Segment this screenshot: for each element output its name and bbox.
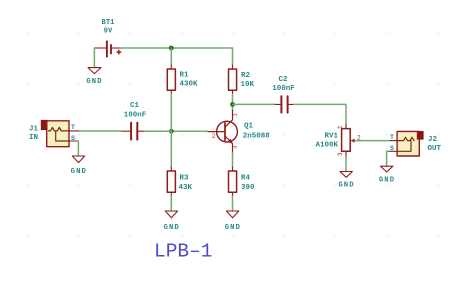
transistor Q1 [208, 111, 238, 154]
J1 inner contacts [49, 127, 69, 141]
battery BT1 left pin [94, 47, 106, 49]
wire: rail down to R2 [232, 48, 234, 65]
J2 inner contacts [398, 137, 414, 151]
svg-text:R1: R1 [180, 72, 190, 80]
svg-text:Q1: Q1 [244, 123, 254, 131]
svg-text:R2: R2 [241, 72, 251, 80]
wire: J1 tip to C1 [78, 130, 121, 132]
svg-text:T: T [390, 134, 394, 141]
RV1 wiper arrow [351, 139, 355, 143]
svg-text:C2: C2 [278, 76, 288, 84]
wire: rail down to R1 [170, 48, 172, 65]
svg-text:GND: GND [379, 177, 395, 185]
J1 pin T [69, 130, 78, 132]
ground (top-left, battery minus) [88, 68, 101, 74]
J2 pin T [391, 140, 398, 142]
battery plus sign [117, 50, 121, 54]
svg-text:GND: GND [338, 182, 354, 190]
junction at R1 top [169, 46, 174, 51]
resistor R1 [167, 65, 175, 94]
wire: base node to Q1 base [171, 130, 207, 132]
wire: R4 to ground [232, 196, 234, 211]
svg-text:J2: J2 [428, 136, 438, 144]
J2 pin S [389, 150, 398, 152]
wire: R2 bottom to collector node [232, 94, 234, 110]
svg-text:GND: GND [71, 168, 87, 176]
svg-text:J1: J1 [29, 126, 39, 134]
wire: RV1 wiper to J2 tip [355, 140, 391, 142]
svg-text:RV1: RV1 [324, 132, 338, 140]
connector J2 [389, 131, 424, 156]
svg-text:GND: GND [86, 78, 102, 86]
ground (R3) [165, 211, 177, 218]
junction base node [169, 129, 174, 134]
svg-text:100nF: 100nF [272, 85, 295, 93]
svg-text:390: 390 [241, 184, 255, 192]
svg-text:1: 1 [337, 125, 344, 129]
ground (J2) [381, 166, 393, 172]
svg-text:1: 1 [231, 113, 238, 117]
wire: top power rail [120, 47, 233, 49]
battery BT1 [107, 41, 111, 56]
wire: R3 to ground [170, 196, 172, 211]
svg-text:GND: GND [225, 224, 241, 232]
svg-text:R3: R3 [180, 175, 190, 183]
svg-text:R4: R4 [241, 175, 251, 183]
svg-text:T: T [71, 124, 75, 131]
wire: collector node to C2 [233, 103, 276, 105]
wire: J1 sleeve to ground [77, 141, 79, 156]
ground (RV1) [340, 172, 352, 178]
resistor R2 [229, 65, 237, 94]
capacitor C1 [121, 123, 145, 140]
wire: RV1 bottom to ground [345, 157, 347, 171]
wire: Q1 emitter to R4 [232, 153, 234, 167]
wire: R1 bottom to base node [170, 94, 172, 131]
resistor R4 [229, 167, 237, 196]
svg-text:9V: 9V [104, 28, 113, 36]
wire: J2 sleeve to ground [387, 151, 389, 166]
Q1 collector [225, 111, 233, 128]
wire: C1 to base node [145, 130, 171, 132]
svg-text:S: S [390, 145, 394, 152]
svg-text:S: S [71, 135, 75, 142]
svg-text:43K: 43K [179, 184, 193, 192]
junction collector node [230, 102, 235, 107]
battery BT1 right pin [112, 47, 120, 49]
ground (R4) [226, 211, 238, 218]
potentiometer RV1 [342, 125, 351, 158]
resistor R3 [167, 167, 175, 196]
J1 pin S [69, 140, 78, 142]
svg-text:OUT: OUT [428, 145, 442, 153]
wire: C2 to RV1 top [294, 104, 346, 124]
svg-text:GND: GND [164, 224, 180, 232]
capacitor C2 [275, 96, 294, 112]
svg-text:430K: 430K [180, 81, 199, 89]
svg-text:IN: IN [29, 134, 38, 142]
svg-text:2n5088: 2n5088 [243, 133, 271, 141]
svg-text:100nF: 100nF [124, 112, 147, 120]
svg-text:3: 3 [337, 152, 344, 156]
svg-text:2: 2 [212, 133, 216, 140]
svg-text:BT1: BT1 [102, 19, 116, 27]
svg-text:A100K: A100K [315, 142, 338, 150]
wire: down to top-left ground [93, 48, 95, 68]
wire: base node down to R3 [170, 131, 172, 167]
Q1 base pin [208, 131, 226, 133]
grid dots [27, 33, 440, 237]
svg-text:3: 3 [231, 145, 238, 149]
Q1 emitter [225, 136, 233, 153]
ground (J1) [72, 156, 84, 163]
svg-text:C1: C1 [130, 102, 140, 110]
svg-text:LPB–1: LPB–1 [154, 241, 213, 263]
connector J1 [41, 120, 79, 147]
svg-text:10K: 10K [241, 81, 255, 89]
